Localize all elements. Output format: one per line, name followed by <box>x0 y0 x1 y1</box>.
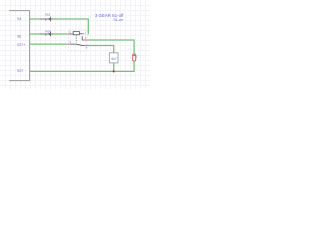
wire W2 from pin 3E <box>30 33 40 35</box>
upper contact pin <box>82 39 83 41</box>
svg-text:S1-on: S1-on <box>113 18 123 22</box>
wire W4: upper contact to lamp <box>87 40 134 54</box>
connector X1 (inline plug) <box>40 17 54 22</box>
wire W6: lower contact to capacitor C1 <box>88 46 114 53</box>
relay K1 dashed enclosure <box>68 30 87 51</box>
coil pin stub left <box>70 33 74 35</box>
lamp H1 <box>133 54 136 61</box>
wire W3 from pin S27+ to relay common <box>30 43 67 45</box>
svg-text:K04: K04 <box>46 30 52 34</box>
svg-text:S27: S27 <box>17 69 23 73</box>
wire W1 continues, corner down to coil right pin area <box>54 19 89 34</box>
switch common red tick <box>67 43 69 45</box>
svg-text:K51: K51 <box>45 12 51 16</box>
coil pin stub right <box>79 33 82 35</box>
coil pin tick red left <box>67 33 69 35</box>
svg-text:6u7: 6u7 <box>111 57 117 61</box>
wire W5: lamp bottom to S27 return <box>30 61 134 71</box>
capacitor C1 box <box>109 53 118 63</box>
actuation dashed link <box>75 35 77 43</box>
svg-text:S27+: S27+ <box>17 43 26 47</box>
switch lever <box>76 44 83 46</box>
wire W2 continues to relay <box>54 33 67 35</box>
wire W7: capacitor to return wire <box>113 63 115 72</box>
junction dot <box>113 70 115 72</box>
svg-text:3E: 3E <box>17 34 22 38</box>
upper contact post <box>81 36 83 40</box>
svg-text:S4: S4 <box>17 17 21 21</box>
grid <box>0 0 150 89</box>
connector X2 (inline plug) <box>40 32 54 37</box>
wire W1 from pin S4 <box>30 18 40 20</box>
connector/IC U1 outline (open left) <box>9 11 30 81</box>
coil pin tick red right <box>83 33 84 35</box>
switch common stub <box>70 43 76 45</box>
lower contact pin <box>83 45 85 47</box>
relay coil K1 <box>73 32 79 35</box>
